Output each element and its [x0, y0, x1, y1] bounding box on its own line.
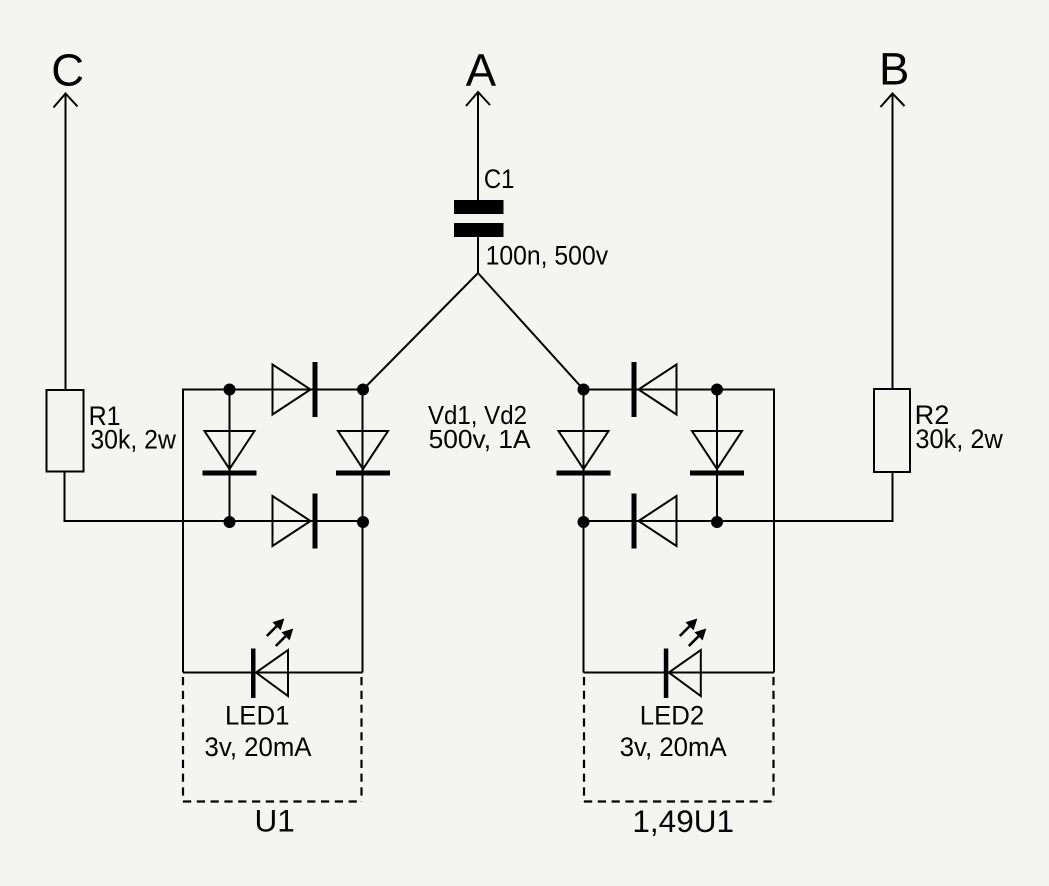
LED1 light arrow 2 — [276, 629, 294, 647]
diode Vd2b left (right bridge, pointing down) — [557, 431, 611, 476]
node dot right bridge top-right — [711, 384, 723, 396]
LED2 light arrow 1 — [680, 619, 698, 637]
node B arrow head — [881, 94, 905, 108]
diode Vd1c right (left bridge, pointing down) — [336, 431, 390, 476]
svg-text:3v, 20mA: 3v, 20mA — [205, 732, 312, 762]
wire C1 bottom lead — [477, 237, 479, 273]
svg-text:30k, 2w: 30k, 2w — [915, 424, 1003, 454]
svg-text:B: B — [879, 44, 909, 95]
svg-text:100n, 500v: 100n, 500v — [486, 241, 609, 271]
wire R2 bottom to right bridge bottom rail — [584, 472, 893, 521]
node dot right bridge top-left — [578, 384, 590, 396]
node dot left bridge top-right — [357, 384, 369, 396]
node dot right bridge bottom-left — [578, 516, 590, 528]
svg-text:3v, 20mA: 3v, 20mA — [620, 732, 727, 762]
svg-text:LED2: LED2 — [640, 701, 705, 731]
svg-text:1,49U1: 1,49U1 — [632, 803, 734, 839]
wire B terminal to R2 — [892, 94, 894, 390]
svg-text:C: C — [51, 44, 84, 95]
dashed box U1 — [183, 677, 362, 802]
wire left bridge right vertical down to LED1 wire — [362, 390, 364, 673]
node dot left bridge bottom-left — [224, 516, 236, 528]
wire LED2 row — [584, 672, 775, 674]
diode Vd2c right (right bridge, pointing down) — [690, 431, 744, 476]
wire C terminal to R1 — [65, 94, 67, 391]
node A arrow head — [466, 92, 490, 106]
diode Vd2d bottom (right bridge, pointing left) — [632, 494, 677, 549]
dashed box 1,49U1 — [584, 677, 774, 802]
wire R1 bottom to left bridge bottom rail — [65, 472, 364, 522]
wire right bridge left vertical down to LED2 wire — [583, 390, 585, 673]
diode Vd1a top (left bridge, pointing right) — [273, 362, 318, 417]
resistor R2 — [874, 389, 910, 472]
LED LED2 symbol — [664, 649, 701, 699]
wire LED1 row — [183, 672, 363, 674]
resistor R1 — [47, 390, 84, 472]
node dot left bridge bottom-right — [357, 516, 369, 528]
diode Vd2a top (right bridge, pointing left) — [632, 362, 677, 417]
node dot left bridge top-left — [224, 384, 236, 396]
svg-text:LED1: LED1 — [225, 701, 290, 731]
svg-text:A: A — [466, 45, 497, 96]
wire diagonal to left bridge — [363, 273, 478, 390]
svg-text:500v, 1A: 500v, 1A — [429, 424, 532, 454]
diode Vd1d bottom (left bridge, pointing right) — [273, 494, 318, 549]
svg-text:30k, 2w: 30k, 2w — [90, 424, 176, 454]
svg-text:U1: U1 — [255, 803, 295, 839]
svg-text:C1: C1 — [484, 164, 515, 194]
wire left outer box: top rail and left side down to LED1 — [183, 390, 363, 673]
LED2 light arrow 2 — [689, 629, 707, 647]
diode Vd1b left (left bridge, pointing down) — [203, 431, 257, 476]
wire A terminal to C1 — [477, 92, 479, 200]
capacitor C1 — [454, 200, 504, 237]
wire right outer box: top rail and right side down to LED2 — [584, 390, 775, 673]
node dot right bridge bottom-right — [711, 516, 723, 528]
LED LED1 symbol — [251, 649, 288, 699]
wire diagonal to right bridge — [478, 273, 584, 390]
LED1 light arrow 1 — [267, 619, 285, 637]
wire right bridge right vertical — [716, 390, 718, 522]
node C arrow head — [54, 94, 78, 108]
wire left bridge left vertical — [229, 390, 231, 522]
